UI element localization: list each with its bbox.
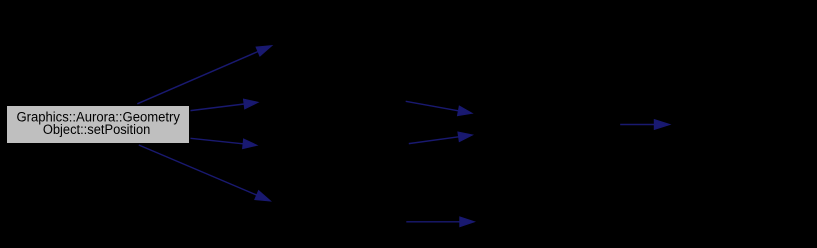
svg-text:Object::setPosition: Object::setPosition <box>43 122 151 137</box>
edge 1: setPosition -> node2 (top) <box>137 46 271 104</box>
edge 4: setPosition -> node (bottom) <box>139 145 271 201</box>
edge 5: mid col upper <box>406 101 473 115</box>
edge 8: right horizontal <box>620 120 670 130</box>
edge 3 <box>191 138 258 148</box>
edge 6: mid col lower <box>409 132 473 144</box>
edge 2 <box>191 99 259 111</box>
edge 7: bottom horizontal <box>406 217 474 227</box>
node: Graphics::Aurora::GeometryObject::setPosition (current node) <box>7 106 190 144</box>
